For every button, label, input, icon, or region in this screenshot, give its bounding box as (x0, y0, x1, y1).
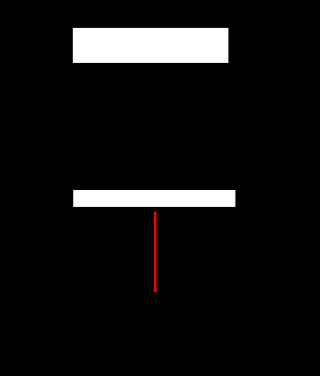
red arrow down: arrowhead (153, 289, 157, 293)
red arrow down: shaft (154, 212, 157, 289)
white panel top (73, 28, 229, 63)
white bar middle (73, 190, 235, 207)
